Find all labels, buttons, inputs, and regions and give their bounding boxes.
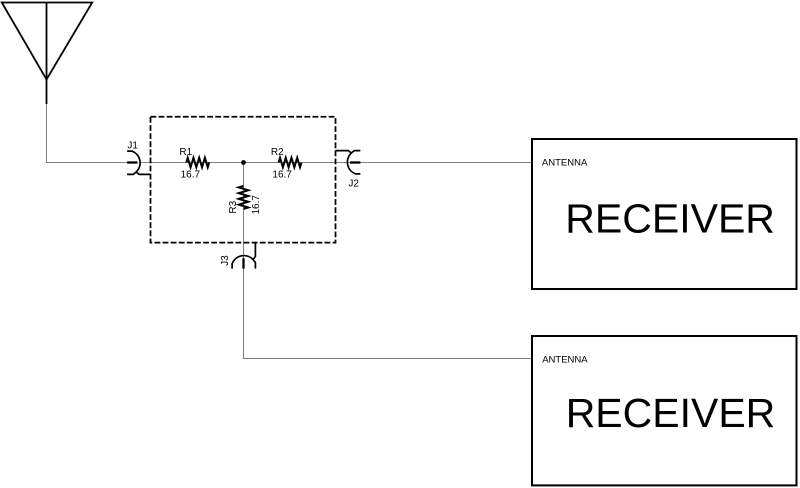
wire J1 to receiver box 1 bbox=[139, 162, 532, 164]
svg-text:J1: J1 bbox=[127, 140, 138, 151]
svg-text:RECEIVER: RECEIVER bbox=[566, 390, 776, 436]
wire J1 ground tail bbox=[136, 172, 150, 174]
wire J3 ground tail bbox=[253, 242, 255, 259]
receiver box 1 bbox=[532, 139, 797, 289]
svg-text:ANTENNA: ANTENNA bbox=[542, 355, 588, 366]
resistor R3 bbox=[239, 186, 249, 209]
svg-text:16.7: 16.7 bbox=[181, 170, 201, 181]
svg-text:RECEIVER: RECEIVER bbox=[565, 195, 775, 241]
splitter shield dashed box bbox=[151, 117, 336, 243]
svg-text:16.7: 16.7 bbox=[251, 195, 262, 215]
connector J3 bbox=[232, 256, 255, 269]
svg-text:J3: J3 bbox=[220, 255, 231, 266]
connector J2 bbox=[347, 151, 360, 174]
svg-text:R1: R1 bbox=[179, 147, 192, 158]
svg-text:R3: R3 bbox=[228, 200, 239, 213]
connector J1 bbox=[127, 151, 140, 174]
svg-text:J2: J2 bbox=[348, 179, 359, 190]
antenna ANT1 bbox=[2, 3, 92, 105]
wire J2 ground tail bbox=[336, 151, 352, 153]
receiver box 2 bbox=[532, 336, 797, 485]
svg-text:ANTENNA: ANTENNA bbox=[542, 157, 588, 168]
resistor R1 bbox=[186, 158, 209, 168]
wire junction to J3 to receiver box 2 bbox=[244, 163, 533, 359]
node junction dot bbox=[241, 160, 246, 165]
svg-text:R2: R2 bbox=[271, 147, 284, 158]
resistor R2 bbox=[279, 158, 302, 168]
svg-text:16.7: 16.7 bbox=[272, 170, 292, 181]
wire antenna to J1 bbox=[47, 104, 129, 163]
